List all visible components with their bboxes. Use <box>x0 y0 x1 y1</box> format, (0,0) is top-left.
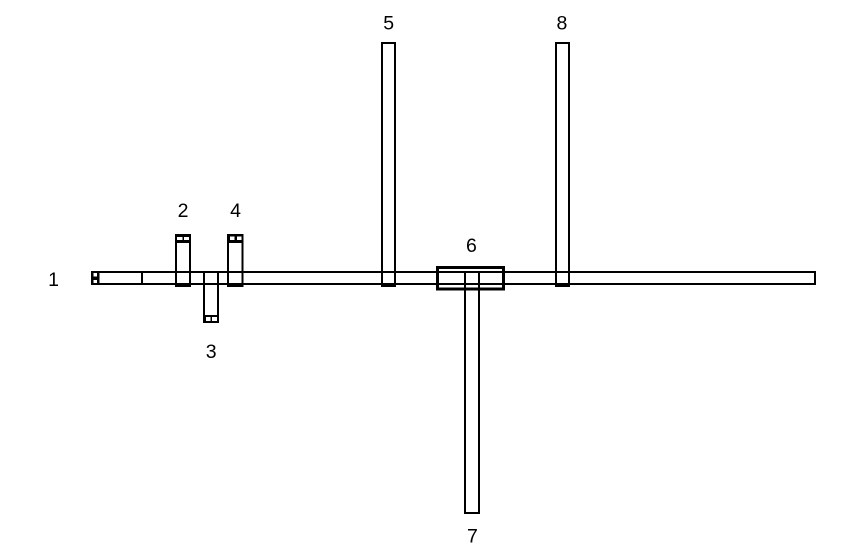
label 2 <box>178 200 189 222</box>
label 3 <box>206 341 217 363</box>
coupled-section box 6 <box>438 268 504 290</box>
stub 7 (long open stub down) <box>465 272 479 513</box>
svg-text:7: 7 <box>467 526 478 548</box>
svg-text:3: 3 <box>206 341 217 363</box>
svg-text:4: 4 <box>230 200 241 222</box>
label 1 <box>48 269 59 291</box>
svg-text:2: 2 <box>178 200 189 222</box>
transmission line 1 (main horizontal microstrip) <box>92 272 815 284</box>
port marker at left end of line 1 <box>91 271 100 285</box>
stub 2 (short open stub up) <box>176 235 190 286</box>
svg-text:6: 6 <box>466 235 477 257</box>
via cap of stub 4 <box>227 234 244 243</box>
label 6 <box>466 235 477 257</box>
label 8 <box>556 13 567 35</box>
label 5 <box>383 13 394 35</box>
via cap of stub 2 <box>175 234 191 243</box>
label 4 <box>230 200 241 222</box>
stub 4 (short open stub up) <box>228 235 243 286</box>
stub 8 (long open stub up) <box>556 43 569 286</box>
svg-text:8: 8 <box>556 13 567 35</box>
stub 5 (long open stub up) <box>382 43 395 286</box>
svg-text:1: 1 <box>48 269 59 291</box>
via cap of stub 3 <box>203 315 219 323</box>
stub 3 (short stub down) <box>204 272 218 322</box>
svg-text:5: 5 <box>383 13 394 35</box>
segment divider on line 1 <box>141 271 143 285</box>
label 7 <box>467 526 478 548</box>
